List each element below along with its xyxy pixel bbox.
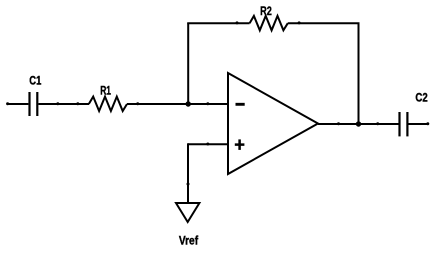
pin dot at op-amp inverting pin	[206, 102, 209, 105]
pin dot on feedback wire left of R2	[236, 21, 239, 24]
junction dot at inverting input node	[186, 101, 191, 106]
svg-text:C2: C2	[415, 91, 428, 105]
wire feedback top right segment	[288, 22, 360, 24]
wire feedback left vertical	[187, 23, 189, 104]
wire feedback right vertical	[358, 23, 360, 124]
wire C2 to right edge	[409, 123, 429, 125]
wire non-inverting input horizontal	[188, 143, 228, 145]
wire R1 to op-amp inverting input	[127, 103, 228, 105]
pin dot on feedback wire right of R2	[298, 21, 301, 24]
op-amp minus sign	[236, 103, 245, 106]
wire C1 to R1	[38, 103, 89, 105]
pin dot on output wire near op-amp	[337, 122, 340, 125]
pin dot on wire left of R1	[76, 102, 79, 105]
svg-text:R1: R1	[100, 84, 111, 98]
pin dot on wire right of R1	[136, 102, 139, 105]
wire op-amp output to C2	[318, 123, 399, 125]
svg-text:R2: R2	[260, 4, 272, 18]
wire input stub left of C1	[7, 103, 28, 105]
pin dot at op-amp non-inverting pin	[206, 143, 209, 146]
capacitor C1	[30, 92, 38, 116]
op-amp U1 body	[228, 73, 318, 174]
wire Vref vertical	[187, 143, 189, 204]
pin dot at right end of output wire	[426, 122, 429, 125]
pin dot on output wire left of C2	[376, 122, 379, 125]
wire feedback top left segment	[187, 22, 249, 24]
resistor R1	[89, 97, 127, 111]
pin dot on Vref wire	[187, 183, 190, 186]
capacitor C2	[400, 112, 408, 136]
svg-text:C1: C1	[29, 74, 41, 88]
resistor R2	[250, 16, 288, 30]
junction dot at output node	[356, 121, 361, 126]
svg-text:Vref: Vref	[179, 234, 199, 248]
Vref reference arrow symbol	[176, 203, 199, 222]
op-amp plus sign	[235, 139, 245, 150]
pin dot on wire right of C1	[56, 102, 59, 105]
pin dot at left end of input wire	[6, 102, 9, 105]
